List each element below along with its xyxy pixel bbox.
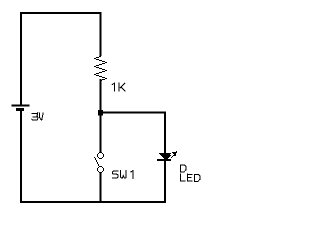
- switch SW1 bottom contact circle: [97, 166, 104, 173]
- label LED glyph D: [195, 174, 200, 181]
- wire left vertical upper: [20, 12, 22, 105]
- label 3V glyph V: [39, 113, 43, 120]
- node junction dot: [98, 110, 103, 116]
- battery BT1 negative plate: [16, 108, 24, 111]
- switch SW1 lever: [94, 157, 99, 166]
- wire right vertical upper: [164, 113, 166, 154]
- label SW1 glyph 1: [131, 171, 133, 179]
- switch SW1 top contact circle: [97, 152, 104, 159]
- wire LED to bottom: [164, 161, 166, 203]
- resistor R1 zigzag: [94, 56, 107, 81]
- wire middle horizontal: [101, 112, 167, 114]
- wire top horizontal: [20, 12, 102, 14]
- LED D emission arrow head: [172, 151, 177, 156]
- label 3V glyph 3: [32, 113, 38, 121]
- wire left vertical lower: [20, 111, 22, 203]
- label SW1 glyph S: [112, 171, 118, 178]
- label LED glyph L: [181, 174, 186, 181]
- LED D cathode bar: [157, 159, 171, 161]
- label 1K glyph 1: [112, 83, 114, 91]
- label 1K glyph K: [119, 83, 125, 91]
- wire junction to switch: [100, 115, 102, 152]
- LED D anode triangle: [159, 153, 171, 159]
- wire resistor branch top: [100, 12, 102, 56]
- label D glyph D: [181, 165, 186, 172]
- battery BT1 positive plate: [12, 104, 30, 106]
- label SW1 glyph W: [121, 171, 127, 178]
- label LED glyph E: [188, 174, 193, 181]
- wire switch to bottom: [100, 172, 102, 203]
- LED D emission arrow shaft: [166, 154, 176, 159]
- switch SW1: [94, 152, 104, 173]
- wire resistor to junction: [100, 79, 102, 115]
- wire bottom horizontal: [20, 201, 166, 203]
